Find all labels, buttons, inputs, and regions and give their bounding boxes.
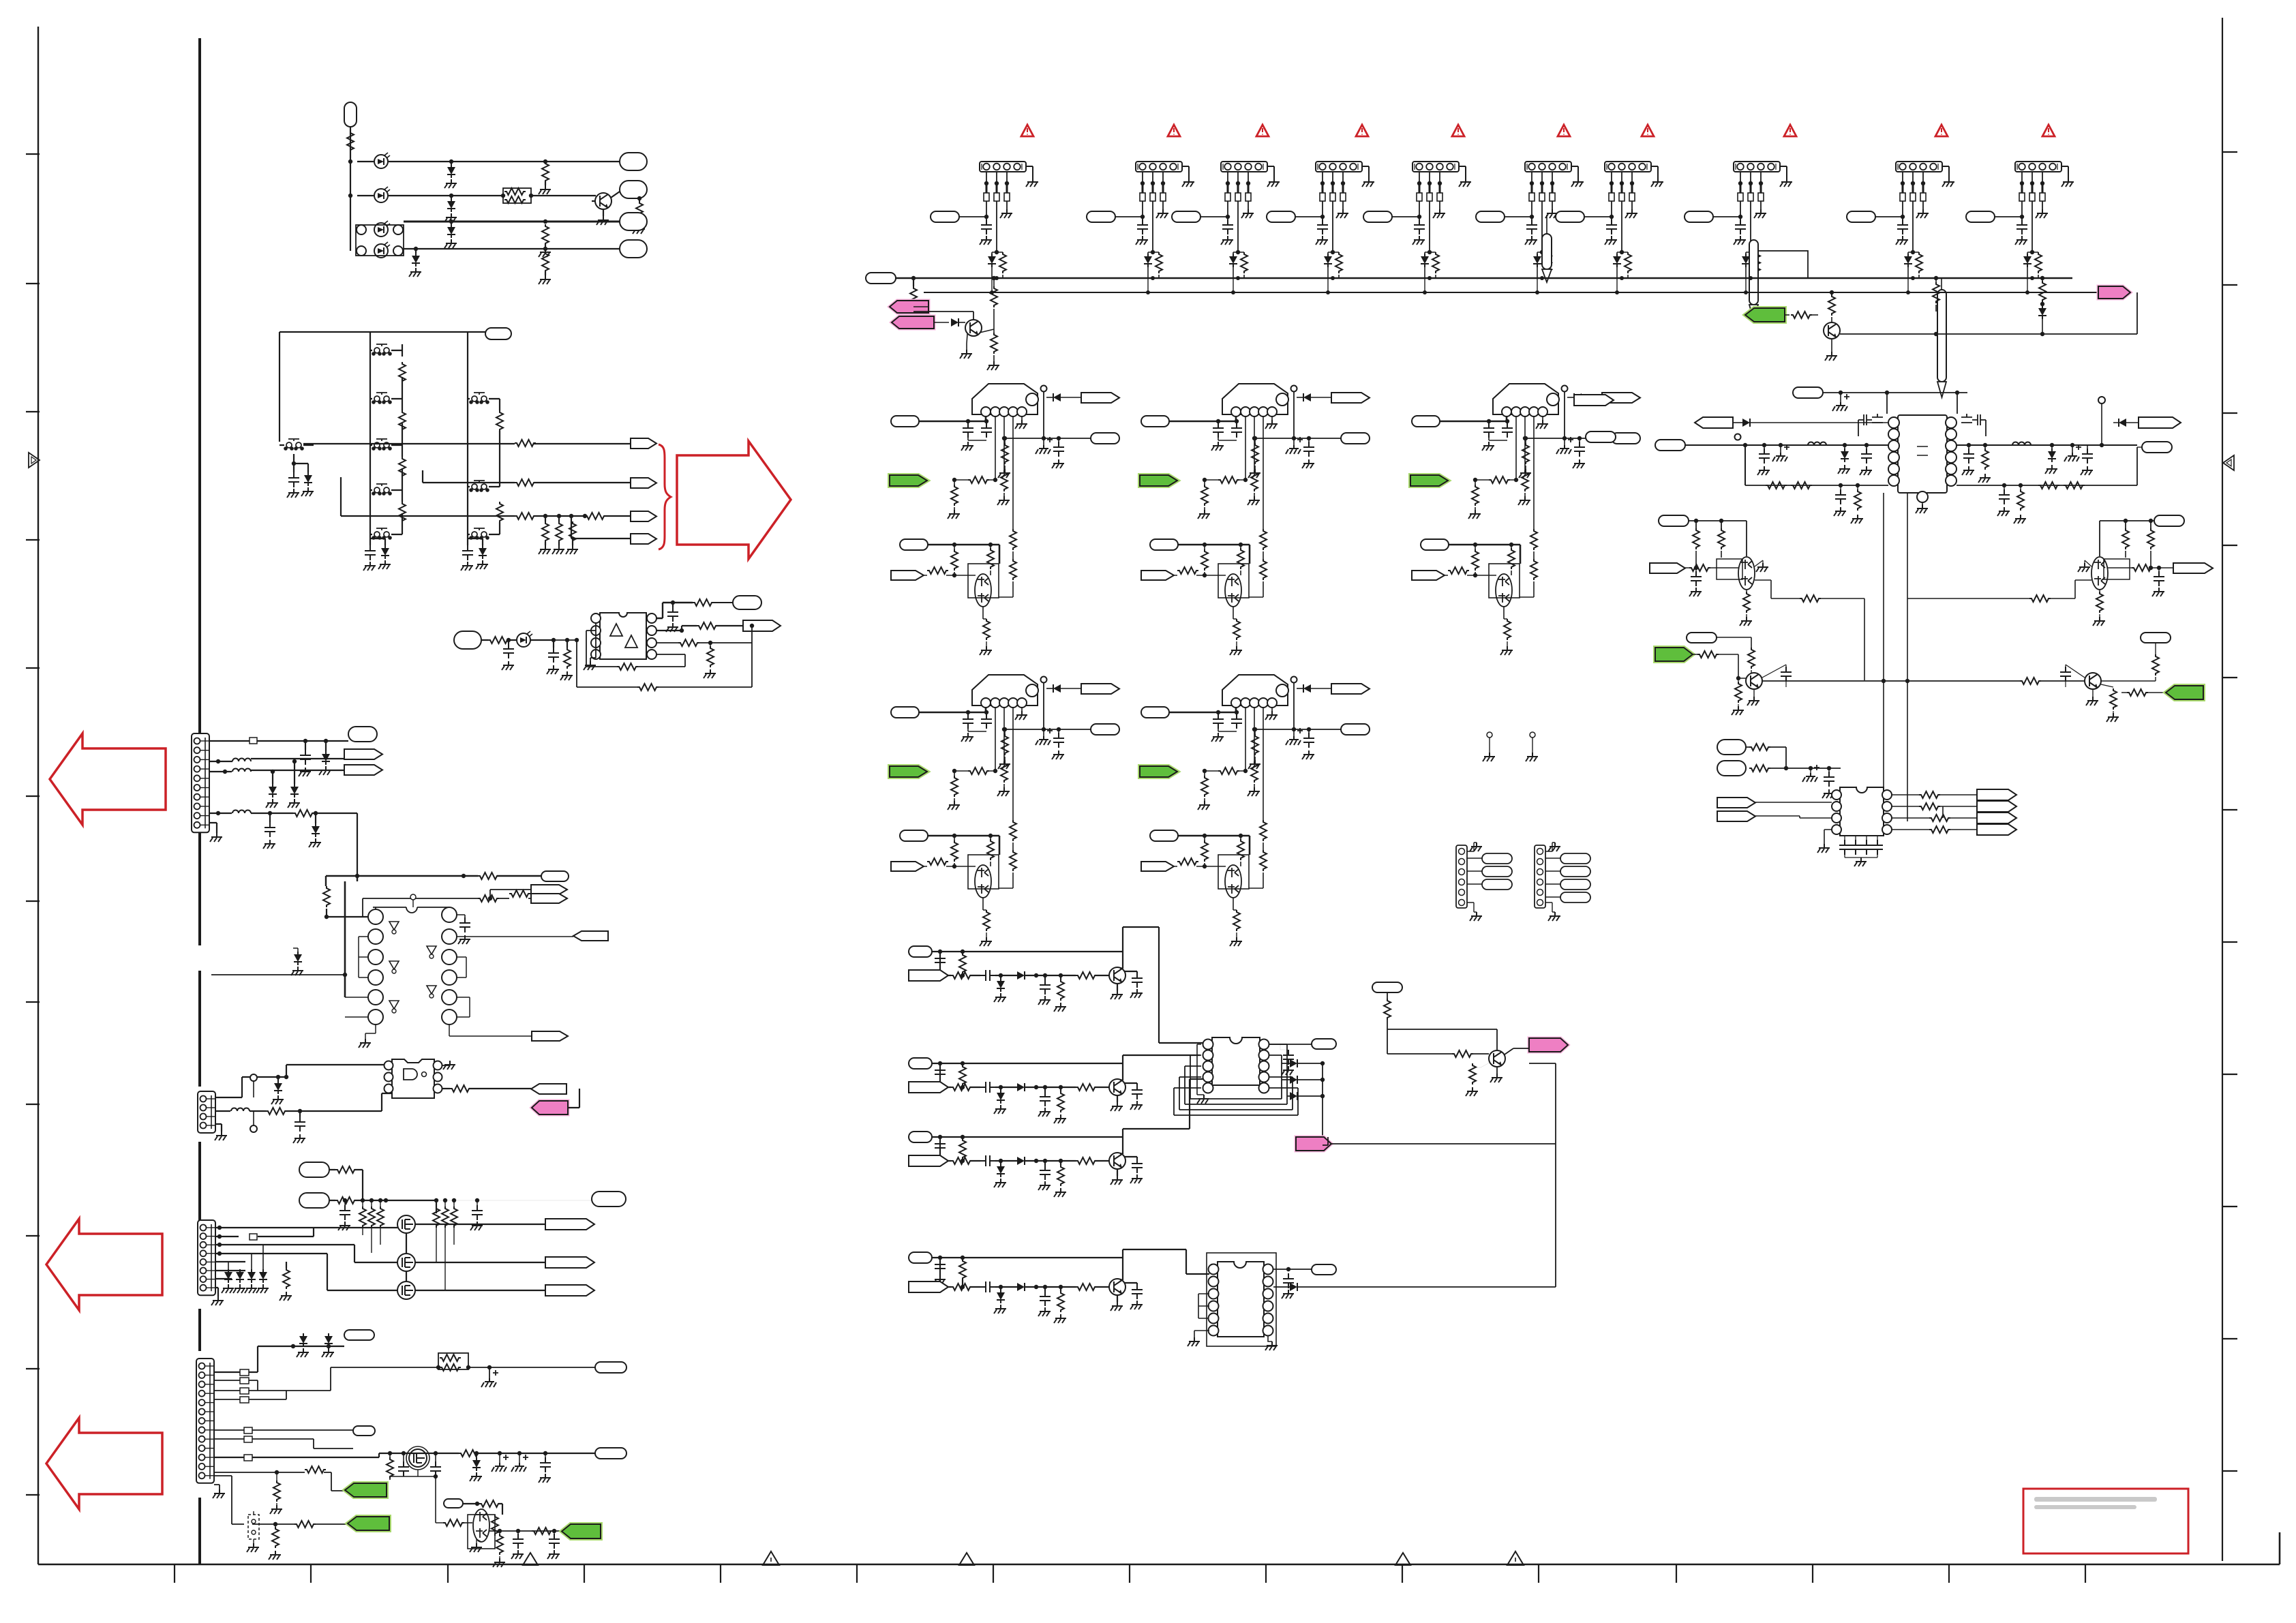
input filter header unit at x=1964 xyxy=(1267,162,1374,278)
U802 gnd xyxy=(1817,844,1830,853)
zener D641 xyxy=(322,751,330,765)
U651 gnd xyxy=(443,1061,455,1070)
bottom revision triangle xyxy=(959,1553,974,1565)
green port EN804 xyxy=(890,766,927,777)
left low resistors xyxy=(1766,482,1787,489)
test pin TP11 xyxy=(1546,215,1547,234)
bus junction dots xyxy=(995,276,999,280)
resistor R620 xyxy=(585,513,606,519)
port GATE OUT xyxy=(531,1084,567,1094)
U802 pins right xyxy=(1882,790,1892,800)
mosfet ML xyxy=(1858,414,1883,436)
port INV OUT xyxy=(573,931,608,941)
cap C633 xyxy=(667,607,678,622)
TR2 cap xyxy=(2154,571,2164,586)
green port MUTE-R xyxy=(2166,686,2203,699)
wire right low xyxy=(1957,447,2137,485)
pink port PCTL2 xyxy=(892,316,934,329)
cap C677 xyxy=(540,1457,551,1472)
wire CN2 row3 xyxy=(215,1093,392,1111)
resistor R617 xyxy=(515,440,536,446)
CN2 gnd xyxy=(215,1132,227,1140)
TR2 gnd xyxy=(2078,563,2090,572)
bus +B wire xyxy=(896,277,2072,279)
TR2 out wire xyxy=(1907,580,2091,598)
resistor R633 xyxy=(693,599,714,606)
IC U701 body xyxy=(1212,1037,1260,1085)
wire CN3 rows xyxy=(215,1228,397,1290)
resistor R802 xyxy=(991,333,997,354)
QB1 cap xyxy=(1781,667,1792,682)
port BIAS xyxy=(444,1499,463,1508)
cap C675 electrolytic xyxy=(492,1455,509,1472)
regulator block U801 xyxy=(891,384,1119,655)
zener D605 xyxy=(447,224,455,238)
inductor L641 xyxy=(232,759,251,762)
port CN3 out2 xyxy=(545,1257,594,1268)
input filter header unit at x=2388 xyxy=(1556,162,1663,278)
transistor Q802 xyxy=(1824,322,1840,339)
bottom revision triangle numbered xyxy=(763,1551,779,1565)
connector CN602 xyxy=(485,328,511,339)
testpoint TP2 xyxy=(250,1125,257,1132)
CN4 gnd xyxy=(213,1489,225,1498)
connector CN4 (13pin) xyxy=(196,1359,214,1483)
RM r2 xyxy=(1749,765,1770,772)
red flow arrow A (to CN1) xyxy=(50,733,166,825)
cap C672 xyxy=(398,1461,409,1476)
cap C676 electrolytic xyxy=(511,1455,528,1472)
resistor R601 xyxy=(347,131,354,152)
left feed components xyxy=(1759,449,1770,464)
bottom border ticks xyxy=(175,1564,2085,1583)
wire U631 out2 xyxy=(656,626,743,631)
CN1 gnd xyxy=(210,833,222,842)
U651 pins left xyxy=(384,1061,393,1070)
cap C667 xyxy=(339,1205,350,1220)
resistor R634 xyxy=(678,639,699,646)
TL2 resistors xyxy=(1693,528,1700,549)
caps C664-C666 xyxy=(433,1207,440,1228)
port KEY3 xyxy=(631,511,656,521)
parallel resistors R605 R606 xyxy=(503,188,531,203)
port CN3 out3 xyxy=(545,1285,594,1296)
port INV VCC xyxy=(541,871,569,881)
key matrix caps C611 xyxy=(288,472,299,487)
diode D801 xyxy=(951,318,958,327)
wire left feed xyxy=(1685,445,1888,485)
dashed jumper xyxy=(248,1515,259,1539)
wire crossfeed xyxy=(211,974,345,975)
transistor QB2 xyxy=(2085,673,2101,689)
left border ticks xyxy=(26,154,40,1495)
title block red frame xyxy=(2023,1489,2188,1553)
port QB1 top xyxy=(1687,633,1717,643)
QB2 feed xyxy=(2152,654,2159,676)
CN3 zeners D661-D664 xyxy=(224,1269,232,1283)
resistor R607 xyxy=(636,201,643,222)
green port EN802 xyxy=(1140,475,1177,486)
QB1 gnd xyxy=(1747,697,1759,706)
green port EN805 xyxy=(1140,766,1177,777)
wire LED row4 xyxy=(404,248,620,249)
mid res xyxy=(2020,678,2041,684)
wire opto fb loop2 xyxy=(554,626,752,687)
Q705 bias xyxy=(1372,982,1402,992)
TR2 wires top xyxy=(2100,521,2154,556)
input filter header unit at x=2990 xyxy=(1966,162,2074,278)
port TL2 top xyxy=(1659,515,1689,526)
U802 pins left xyxy=(1832,790,1841,800)
node n601 xyxy=(348,160,352,164)
mosfet MR xyxy=(1961,414,1986,436)
RM out w4 xyxy=(1892,829,1977,830)
port RM out1 xyxy=(1977,789,2016,800)
port RM in2 xyxy=(1717,761,1746,776)
U641 pins right xyxy=(442,907,457,922)
LED D602 xyxy=(374,187,390,202)
wire VCC top xyxy=(1823,393,1967,414)
TL2 wires top xyxy=(1689,521,1747,556)
transistor pair QR1 xyxy=(2091,557,2108,590)
driver row3 (Q703) xyxy=(909,1132,932,1142)
resistor R679 xyxy=(532,1528,553,1534)
bottom revision triangle xyxy=(523,1553,538,1565)
green port PROT1 xyxy=(345,1483,387,1497)
U801 pins right xyxy=(1946,417,1957,428)
wire key row KEY3 xyxy=(341,477,631,516)
gate U651 body xyxy=(392,1059,434,1098)
wire inv rail2 xyxy=(363,890,531,917)
green port PROT2 xyxy=(348,1517,389,1530)
resistor R635 xyxy=(697,622,718,629)
egnd top xyxy=(1832,394,1849,411)
red group brace xyxy=(659,444,671,549)
resistor R652 xyxy=(450,1085,471,1092)
title block ghost text xyxy=(2034,1497,2157,1509)
port RM out2 xyxy=(1977,801,2016,812)
warning triangle xyxy=(1558,125,1570,136)
U701 gnd xyxy=(1197,1095,1209,1104)
U631 gnd xyxy=(584,661,596,670)
aux connector group 1 xyxy=(1456,845,1467,908)
resistor R636 xyxy=(707,646,714,667)
U641 left links xyxy=(345,937,368,1017)
IC U802 body xyxy=(1840,787,1884,836)
pulldown resistors R621-R623 xyxy=(542,521,549,543)
zener D644 xyxy=(312,823,320,837)
test stub 1 xyxy=(1487,732,1492,738)
wire Q802 out xyxy=(1840,292,2137,334)
left zone marker triangle xyxy=(29,453,40,468)
right border ticks xyxy=(2222,152,2237,1471)
wire U651 out xyxy=(442,1088,531,1089)
wire CN4 row1 xyxy=(258,1346,344,1347)
resistor R801 xyxy=(910,286,917,307)
transistor Q801 xyxy=(965,320,982,336)
RM r1 xyxy=(1749,744,1770,750)
cap C673 xyxy=(513,1534,524,1549)
TR2 base chain xyxy=(2132,564,2153,571)
wire CN1 row1 xyxy=(210,740,348,742)
LED D601 xyxy=(374,153,390,168)
resistor R632 xyxy=(564,648,571,669)
input filter header unit at x=2106 xyxy=(1363,162,1471,278)
U702 out port xyxy=(1312,1264,1336,1275)
port RM in1 xyxy=(1717,740,1746,755)
wire key matrix top rail xyxy=(280,332,485,442)
U702 pins right xyxy=(1263,1264,1273,1275)
diode D606 xyxy=(412,253,420,267)
pink port DRV2 xyxy=(1296,1137,1331,1151)
port opto OUT1 xyxy=(733,596,761,609)
wire left low xyxy=(1745,485,1888,486)
diodes D701-D703 xyxy=(1290,1059,1297,1067)
resistor R805 xyxy=(1791,312,1812,318)
wire CN4 row8 xyxy=(214,1453,595,1457)
IC U801 body xyxy=(1898,415,1947,493)
resistor R676a xyxy=(459,1450,480,1457)
port KEY2 xyxy=(631,478,656,488)
input filter header unit at x=1471 xyxy=(931,162,1038,278)
sheet right border xyxy=(2222,18,2223,1561)
inductor L643 xyxy=(232,810,251,814)
bus sense wire xyxy=(924,292,2098,293)
U702 left wires xyxy=(1198,1294,1209,1318)
wires CN4 rows3-5 xyxy=(240,1378,249,1384)
green port EN803 xyxy=(1410,475,1448,486)
port RM arrow in1 xyxy=(1717,798,1755,808)
resistor R676 xyxy=(294,1521,316,1528)
right top tap xyxy=(2098,397,2105,404)
TR2 resistors xyxy=(2147,528,2154,549)
connector CN3 (8pin) xyxy=(198,1220,215,1295)
port TL2 in xyxy=(1650,563,1685,573)
port LAMP1 xyxy=(620,153,647,170)
resistor R678b xyxy=(496,1534,503,1555)
resistor R643 xyxy=(478,895,499,902)
key matrix resistors R615-R616 xyxy=(496,410,503,431)
port CN4 out5 xyxy=(595,1448,626,1459)
resistor R651 xyxy=(266,1108,287,1114)
U641 out bottom xyxy=(365,1025,532,1039)
port VCC top xyxy=(1793,387,1823,398)
diode D803 xyxy=(1742,419,1750,427)
pink port DRV1 xyxy=(1529,1038,1568,1052)
port right out pill xyxy=(2142,442,2172,453)
green port PCTL3 xyxy=(1745,308,1785,322)
sheet bottom border xyxy=(38,1532,2280,1564)
resistor R645 xyxy=(323,886,330,907)
regulator block U804 xyxy=(891,675,1119,946)
U702 diode out xyxy=(1290,1283,1297,1291)
U641 pins left xyxy=(368,909,383,924)
port far left a xyxy=(1574,395,1614,406)
input filter header unit at x=2815 xyxy=(1847,162,1954,278)
key switches column S2-S6 xyxy=(372,344,392,356)
port CN4 out3 xyxy=(353,1426,375,1436)
zener D604 xyxy=(447,198,455,212)
resistor R674 xyxy=(305,1466,326,1473)
wire mosfet outs xyxy=(406,1224,545,1290)
wire right feed xyxy=(1957,444,2137,446)
input filter header unit at x=2271 xyxy=(1476,162,1584,278)
port +B rail xyxy=(866,273,896,284)
wire LED row1 xyxy=(357,161,620,162)
regulator block U802 xyxy=(1141,384,1370,655)
cap C642 xyxy=(265,822,275,837)
U702 cap xyxy=(1283,1273,1294,1288)
opto LED D631 xyxy=(517,631,532,647)
connector CN2 (4pin) xyxy=(198,1091,215,1133)
port LAMP3 xyxy=(620,213,647,230)
red flow arrow B (to CN3) xyxy=(46,1219,162,1310)
TR2 emitter res xyxy=(2096,592,2103,613)
warning triangle xyxy=(1256,125,1269,136)
zener D675 xyxy=(472,1457,481,1471)
QB2 right res xyxy=(2127,689,2148,696)
port INV A xyxy=(531,885,567,894)
U701 pins right xyxy=(1259,1040,1269,1050)
U801 pins left xyxy=(1888,417,1899,428)
inverter IC U641 outline xyxy=(373,907,449,913)
TL2 out xyxy=(1755,580,1864,680)
zener D671 xyxy=(299,1333,307,1347)
wire LED row2 xyxy=(357,195,596,196)
red flow arrow to keypad xyxy=(677,441,791,559)
QB1 feed xyxy=(1717,637,1751,648)
resistor R673 xyxy=(387,1457,393,1478)
right feed components xyxy=(1963,449,1974,464)
port CN1 out3 xyxy=(344,765,382,775)
U641 inverters xyxy=(389,922,399,930)
test pin TP14 xyxy=(1937,290,1946,382)
U641 right links xyxy=(457,957,470,1017)
TL2 cap xyxy=(1691,571,1702,586)
QB2 base res xyxy=(2110,688,2117,710)
wire key row KEY1 xyxy=(303,443,631,444)
aux connector group 2 xyxy=(1535,845,1545,908)
QB1 base xyxy=(1697,651,1719,658)
port KEY1 xyxy=(631,438,656,449)
zener D603 xyxy=(447,164,455,178)
RM egnd xyxy=(1802,765,1819,782)
resistor R678 xyxy=(492,1515,498,1536)
LED bridge DA601 xyxy=(356,225,404,256)
port INV OUT2 xyxy=(532,1031,568,1041)
port TR2 top xyxy=(2154,515,2184,526)
red flow arrow C (to CN4) xyxy=(46,1418,162,1509)
key switches column S7-S9 xyxy=(469,393,489,404)
port opto OUT2 xyxy=(743,620,781,631)
port TR2 out xyxy=(2173,563,2213,573)
CN3 gnd xyxy=(211,1296,224,1305)
U701 cap xyxy=(1283,1050,1294,1065)
Q705 emitter xyxy=(1469,1063,1476,1084)
wire CN1 row2 xyxy=(210,759,344,761)
port CN3 in2 xyxy=(299,1193,329,1208)
U701 loop wires xyxy=(1190,1055,1282,1099)
cap C668 xyxy=(472,1205,483,1220)
regulator block U805 xyxy=(1141,675,1370,946)
RM in wires xyxy=(1755,802,1832,818)
wire CN4 row2 xyxy=(214,1346,258,1372)
right low resistors xyxy=(2038,482,2059,489)
transistor pair QL1 xyxy=(1738,557,1755,590)
port INV B xyxy=(531,894,567,903)
RM out w1 xyxy=(1892,794,1977,795)
connector CN1 (10pin) xyxy=(192,733,209,832)
mosfets Q661-Q663 xyxy=(397,1215,415,1233)
wire thick drop xyxy=(344,881,346,997)
transistor QB1 xyxy=(1746,673,1762,689)
U641 cap xyxy=(459,917,470,932)
QB1 out wire xyxy=(1762,680,2085,682)
key matrix caps C612 xyxy=(365,545,376,560)
port QB2 top xyxy=(2141,633,2171,643)
QB2 gnd xyxy=(2086,697,2098,706)
input filter header unit at x=2577 xyxy=(1685,162,1792,278)
port CN1 out2 xyxy=(344,749,382,759)
wire LED row3 xyxy=(404,221,620,223)
transistor pair Q672 xyxy=(473,1509,489,1542)
RM out w2 xyxy=(1892,806,1977,818)
resistor R674b xyxy=(273,1481,280,1502)
TL2 base chain xyxy=(1689,564,1710,571)
port RM out4 xyxy=(1977,824,2016,835)
TL2 emitter res xyxy=(1743,592,1750,613)
sheet left border xyxy=(37,27,39,1564)
zener D672 xyxy=(324,1333,333,1347)
cap C673a xyxy=(430,1461,441,1476)
transistor Q705 xyxy=(1489,1050,1505,1067)
pink port PCTL1 xyxy=(890,301,928,313)
wire CN1 row3 xyxy=(210,770,344,772)
board boundary heavy line xyxy=(198,38,201,1564)
QB2 cap xyxy=(2060,667,2071,682)
wire CN2 row1 xyxy=(215,1065,392,1097)
input filter header unit at x=1825 xyxy=(1172,162,1280,278)
U801 drop wires xyxy=(1884,493,1907,821)
pink port STANDBY xyxy=(532,1101,568,1114)
wire drv collect3 xyxy=(1123,1079,1208,1137)
green port MUTE-L xyxy=(1655,648,1693,661)
key switch S1 xyxy=(284,439,304,451)
resistor R661 xyxy=(335,1166,357,1173)
wire CN4 row12 xyxy=(214,1472,345,1491)
connector CN601 xyxy=(344,102,357,127)
U701 pins left xyxy=(1203,1040,1213,1050)
bottom revision triangle xyxy=(1395,1553,1410,1565)
QB1 base res xyxy=(1735,682,1742,703)
resistor R644 xyxy=(509,890,530,897)
resistor R804 xyxy=(1933,282,1939,303)
port left feed xyxy=(1655,440,1685,451)
driver row2 (Q702) xyxy=(909,1058,932,1069)
driver row4 (Q704) xyxy=(909,1252,932,1263)
wire opto fb loop1 xyxy=(586,631,685,667)
wire inv rail1 xyxy=(326,876,541,886)
resistor R675 xyxy=(272,1527,279,1548)
zener D651 xyxy=(274,1080,282,1094)
warning triangle xyxy=(1168,125,1180,136)
wire CN1 row9 xyxy=(210,813,357,876)
inductor L651 xyxy=(231,1108,250,1112)
cap C674 xyxy=(549,1534,560,1549)
resistor R677 xyxy=(479,1500,500,1507)
port LAMP2 xyxy=(620,181,647,198)
wire Q601 out xyxy=(611,192,620,198)
